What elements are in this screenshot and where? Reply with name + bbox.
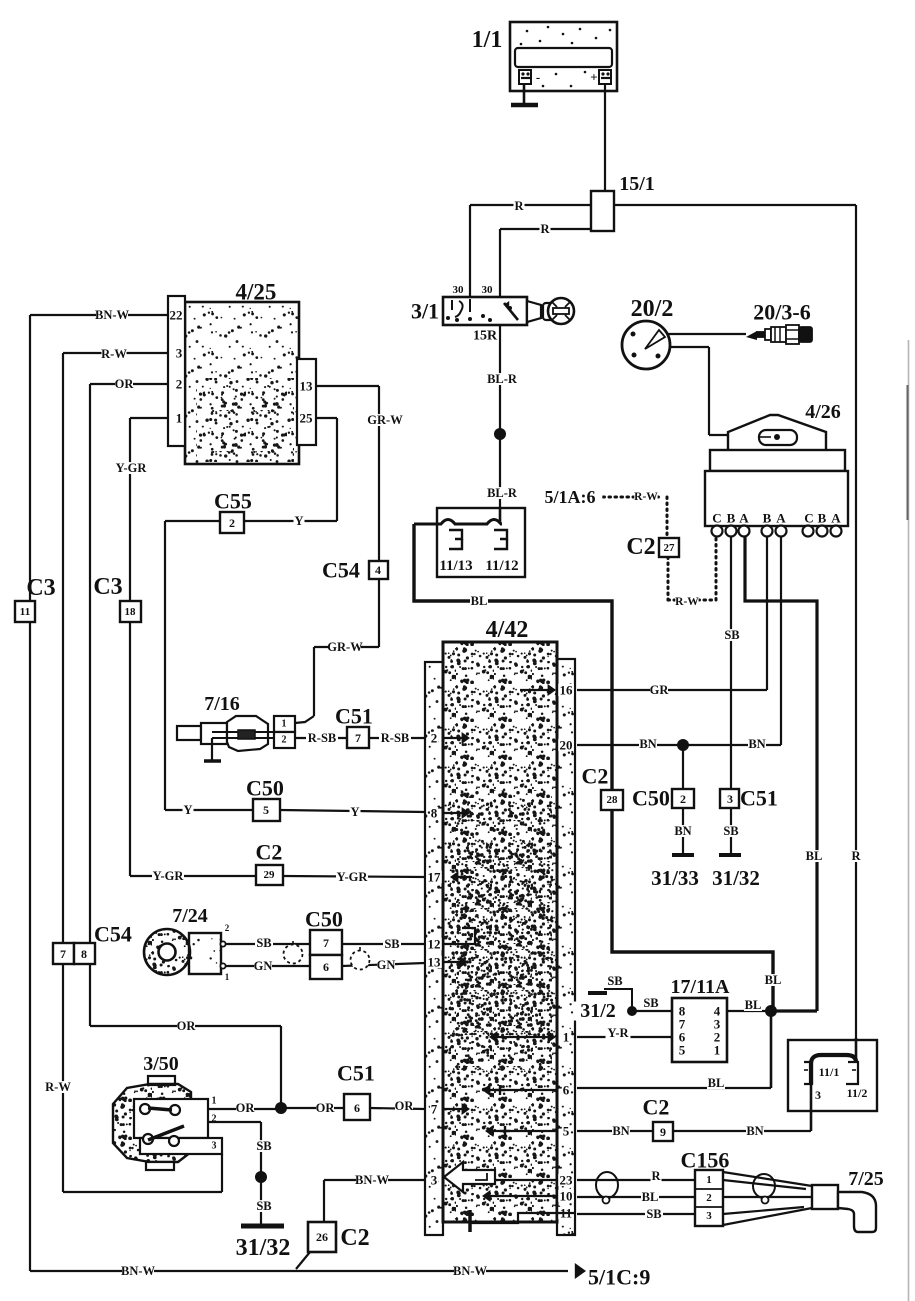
svg-text:SB: SB xyxy=(723,824,738,838)
svg-text:20/2: 20/2 xyxy=(631,296,674,322)
svg-text:BN: BN xyxy=(746,1124,763,1138)
svg-text:1: 1 xyxy=(176,411,183,426)
svg-text:2: 2 xyxy=(212,1114,217,1125)
svg-text:R-W: R-W xyxy=(101,347,127,361)
svg-text:15/1: 15/1 xyxy=(619,173,655,195)
svg-text:C51: C51 xyxy=(335,704,373,729)
svg-text:6: 6 xyxy=(354,1101,360,1115)
svg-text:5: 5 xyxy=(263,803,269,817)
svg-text:OR: OR xyxy=(395,1099,415,1113)
svg-text:6: 6 xyxy=(323,960,329,974)
svg-text:3: 3 xyxy=(212,1141,217,1152)
svg-text:BN-W: BN-W xyxy=(453,1264,488,1278)
svg-text:OR: OR xyxy=(177,1019,197,1033)
svg-text:11: 11 xyxy=(20,606,30,618)
svg-text:3/50: 3/50 xyxy=(143,1053,179,1075)
svg-text:C55: C55 xyxy=(214,489,252,514)
svg-text:2: 2 xyxy=(431,731,438,746)
svg-text:4/42: 4/42 xyxy=(486,617,529,643)
svg-text:3: 3 xyxy=(727,792,733,806)
svg-text:SB: SB xyxy=(724,628,739,642)
svg-text:BL: BL xyxy=(471,594,488,608)
svg-text:+: + xyxy=(590,70,597,85)
svg-text:11/12: 11/12 xyxy=(485,558,518,574)
svg-text:BN: BN xyxy=(612,1124,629,1138)
svg-text:5: 5 xyxy=(679,1043,686,1058)
svg-text:C156: C156 xyxy=(681,1148,730,1173)
svg-text:C50: C50 xyxy=(305,907,343,932)
svg-text:R: R xyxy=(851,849,861,863)
svg-text:1: 1 xyxy=(225,972,230,982)
svg-text:GN: GN xyxy=(377,958,396,972)
svg-text:16: 16 xyxy=(560,683,574,698)
svg-text:17: 17 xyxy=(428,870,442,885)
svg-text:7/16: 7/16 xyxy=(204,693,240,715)
svg-text:C2: C2 xyxy=(340,1225,369,1251)
svg-text:OR: OR xyxy=(115,377,135,391)
svg-text:GN: GN xyxy=(254,959,273,973)
svg-text:R: R xyxy=(651,1169,661,1183)
svg-text:11/13: 11/13 xyxy=(439,558,472,574)
svg-text:18: 18 xyxy=(125,606,137,618)
svg-text:2: 2 xyxy=(680,792,686,806)
svg-text:SB: SB xyxy=(646,1207,661,1221)
svg-text:3: 3 xyxy=(815,1088,821,1102)
svg-text:3: 3 xyxy=(706,1210,712,1222)
svg-text:11/2: 11/2 xyxy=(847,1086,868,1100)
svg-text:-: - xyxy=(536,70,540,85)
svg-text:OR: OR xyxy=(316,1101,336,1115)
svg-text:BL: BL xyxy=(642,1190,659,1204)
svg-text:BN: BN xyxy=(674,824,691,838)
svg-text:BN-W: BN-W xyxy=(121,1264,156,1278)
svg-text:12: 12 xyxy=(428,937,441,952)
svg-text:5/1C:9: 5/1C:9 xyxy=(588,1265,650,1290)
svg-text:Y-R: Y-R xyxy=(607,1026,629,1040)
svg-text:Y-GR: Y-GR xyxy=(116,461,148,475)
svg-text:SB: SB xyxy=(256,1139,271,1153)
svg-text:5: 5 xyxy=(563,1124,570,1139)
svg-text:BN-W: BN-W xyxy=(95,308,130,322)
svg-text:7: 7 xyxy=(355,731,361,745)
svg-text:SB: SB xyxy=(256,1199,271,1213)
svg-text:BL-R: BL-R xyxy=(487,486,518,500)
svg-text:R-SB: R-SB xyxy=(308,731,336,745)
svg-text:7: 7 xyxy=(323,936,329,950)
svg-text:R-W: R-W xyxy=(45,1080,71,1094)
svg-text:C3: C3 xyxy=(26,575,55,601)
svg-text:11/1: 11/1 xyxy=(819,1065,840,1079)
svg-text:R: R xyxy=(540,222,550,236)
svg-text:27: 27 xyxy=(664,542,676,554)
svg-text:17/11A: 17/11A xyxy=(671,976,730,998)
svg-text:31/2: 31/2 xyxy=(580,1000,616,1022)
svg-text:8: 8 xyxy=(81,947,87,961)
svg-text:15R: 15R xyxy=(473,329,498,344)
svg-text:Y: Y xyxy=(183,803,192,817)
svg-text:GR-W: GR-W xyxy=(327,640,363,654)
svg-text:B: B xyxy=(818,511,827,526)
svg-text:BL: BL xyxy=(708,1076,725,1090)
svg-text:1: 1 xyxy=(282,719,287,730)
svg-text:BL: BL xyxy=(765,973,782,987)
svg-text:5/1A:6: 5/1A:6 xyxy=(545,487,596,507)
svg-text:6: 6 xyxy=(563,1083,570,1098)
svg-text:3: 3 xyxy=(431,1173,438,1188)
svg-text:1: 1 xyxy=(714,1043,721,1058)
svg-text:30: 30 xyxy=(482,284,494,296)
svg-text:26: 26 xyxy=(316,1230,328,1244)
svg-text:3: 3 xyxy=(176,346,183,361)
svg-text:GR-W: GR-W xyxy=(367,413,403,427)
svg-text:R-W: R-W xyxy=(675,596,699,608)
svg-text:BN: BN xyxy=(748,737,765,751)
svg-text:1: 1 xyxy=(212,1096,217,1107)
svg-text:4: 4 xyxy=(375,563,381,577)
svg-text:C54: C54 xyxy=(94,922,132,947)
svg-text:30: 30 xyxy=(453,284,465,296)
svg-text:SB: SB xyxy=(643,996,658,1010)
svg-text:SB: SB xyxy=(384,937,399,951)
svg-text:31/32: 31/32 xyxy=(236,1235,291,1261)
svg-text:BN-W: BN-W xyxy=(355,1173,390,1187)
svg-text:2: 2 xyxy=(282,735,287,746)
svg-text:31/33: 31/33 xyxy=(651,866,699,890)
svg-text:7: 7 xyxy=(431,1102,438,1117)
svg-text:C51: C51 xyxy=(740,786,778,811)
svg-text:9: 9 xyxy=(660,1125,666,1139)
svg-text:2: 2 xyxy=(706,1192,712,1204)
svg-text:R-SB: R-SB xyxy=(381,731,409,745)
svg-text:SB: SB xyxy=(256,936,271,950)
svg-text:A: A xyxy=(776,511,786,526)
svg-text:22: 22 xyxy=(170,308,183,323)
svg-text:8: 8 xyxy=(431,806,438,821)
svg-text:C3: C3 xyxy=(93,574,122,600)
svg-text:BL: BL xyxy=(806,849,823,863)
svg-text:B: B xyxy=(727,511,736,526)
svg-text:20: 20 xyxy=(560,738,573,753)
svg-text:C2: C2 xyxy=(626,534,655,560)
svg-text:A: A xyxy=(739,511,749,526)
svg-text:Y-GR: Y-GR xyxy=(153,869,185,883)
svg-text:7/24: 7/24 xyxy=(172,905,208,927)
svg-text:C: C xyxy=(712,511,721,526)
svg-text:2: 2 xyxy=(225,923,230,933)
svg-text:25: 25 xyxy=(300,411,314,426)
svg-text:1: 1 xyxy=(563,1030,570,1045)
svg-text:B: B xyxy=(763,511,772,526)
svg-text:C2: C2 xyxy=(256,840,283,865)
svg-text:C54: C54 xyxy=(322,558,360,583)
svg-text:R: R xyxy=(514,199,524,213)
svg-text:3/1: 3/1 xyxy=(411,299,439,324)
svg-text:2: 2 xyxy=(229,516,235,530)
svg-text:20/3-6: 20/3-6 xyxy=(753,300,810,325)
svg-text:31/32: 31/32 xyxy=(712,866,760,890)
svg-text:4/26: 4/26 xyxy=(805,401,841,423)
svg-text:4/25: 4/25 xyxy=(236,280,277,305)
svg-text:1: 1 xyxy=(706,1174,712,1186)
svg-text:C2: C2 xyxy=(643,1095,670,1120)
svg-text:Y-GR: Y-GR xyxy=(337,870,369,884)
svg-text:OR: OR xyxy=(236,1101,256,1115)
svg-text:BN: BN xyxy=(639,737,656,751)
svg-text:Y: Y xyxy=(294,514,303,528)
svg-text:C50: C50 xyxy=(246,776,284,801)
svg-text:BL-R: BL-R xyxy=(487,372,518,386)
svg-text:A: A xyxy=(831,511,841,526)
svg-text:13: 13 xyxy=(300,379,314,394)
svg-text:28: 28 xyxy=(607,794,619,806)
svg-text:R-W: R-W xyxy=(634,491,658,503)
svg-text:C2: C2 xyxy=(582,764,609,789)
svg-text:SB: SB xyxy=(607,974,622,988)
svg-text:29: 29 xyxy=(264,869,276,881)
svg-text:23: 23 xyxy=(560,1173,574,1188)
svg-text:13: 13 xyxy=(428,955,442,970)
svg-text:7/25: 7/25 xyxy=(848,1168,884,1190)
svg-text:GR: GR xyxy=(650,683,670,697)
svg-text:C50: C50 xyxy=(632,786,670,811)
svg-text:2: 2 xyxy=(176,377,183,392)
svg-text:C: C xyxy=(804,511,813,526)
svg-text:BL: BL xyxy=(745,998,762,1012)
svg-text:Y: Y xyxy=(350,805,359,819)
svg-text:1/1: 1/1 xyxy=(472,27,503,53)
svg-text:10: 10 xyxy=(560,1189,573,1204)
svg-text:C51: C51 xyxy=(337,1061,375,1086)
svg-text:7: 7 xyxy=(60,947,66,961)
